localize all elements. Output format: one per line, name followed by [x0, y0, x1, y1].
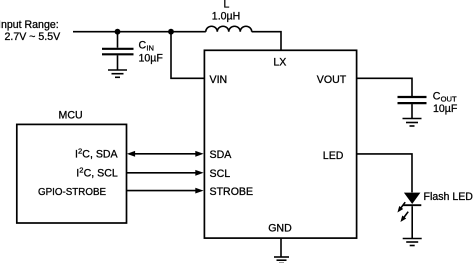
label L: [212, 0, 240, 23]
wire VIN branch: [171, 32, 204, 79]
LED arrow 2: [398, 210, 410, 223]
ground COUT: [403, 119, 422, 127]
svg-text:SCL: SCL: [210, 168, 231, 180]
wire L to LX: [252, 32, 281, 50]
svg-text:10µF: 10µF: [139, 53, 164, 65]
label I2C SCL: [76, 166, 118, 180]
svg-text:Flash LED: Flash LED: [424, 191, 474, 203]
LED arrow 1: [395, 201, 407, 214]
svg-text:IN: IN: [146, 43, 154, 52]
pin LED: [323, 150, 344, 162]
svg-text:C: C: [139, 39, 147, 51]
pin GND: [268, 223, 292, 235]
pin SCL: [210, 168, 231, 180]
label MCU: [59, 110, 83, 122]
svg-text:C: C: [433, 90, 441, 102]
svg-text:SDA: SDA: [210, 149, 233, 161]
svg-text:GPIO-STROBE: GPIO-STROBE: [38, 187, 107, 198]
svg-text:2.7V ~ 5.5V: 2.7V ~ 5.5V: [5, 31, 62, 43]
pin LX: [273, 57, 286, 69]
wire input rail: [73, 31, 206, 33]
svg-text:STROBE: STROBE: [210, 186, 254, 198]
capacitor COUT: [398, 97, 427, 118]
ground LED: [403, 239, 422, 246]
wire LED branch: [357, 154, 412, 193]
label GPIO-STROBE: [38, 187, 107, 198]
svg-text:VIN: VIN: [210, 74, 228, 86]
wire VOUT: [357, 78, 412, 96]
node VIN input label: [0, 19, 61, 43]
ground CIN: [108, 70, 127, 77]
svg-text:C, SCL: C, SCL: [84, 168, 118, 180]
label Flash LED: [424, 191, 474, 203]
LED D1: [403, 193, 421, 239]
wire SDA bus: [129, 153, 200, 155]
node junction CIN: [115, 29, 121, 35]
pin SDA: [210, 149, 233, 161]
label CIN value: [139, 39, 164, 64]
wire SCL bus: [127, 172, 200, 174]
node junction VIN: [168, 29, 174, 35]
svg-text:10µF: 10µF: [433, 103, 458, 115]
inductor L1: [206, 26, 252, 31]
svg-text:VOUT: VOUT: [317, 74, 347, 86]
svg-text:MCU: MCU: [59, 110, 83, 122]
op-amp U1 IC body: [204, 50, 356, 238]
pin STROBE: [210, 186, 254, 198]
label COUT value: [433, 90, 458, 115]
label I2C SDA: [75, 147, 119, 161]
svg-text:GND: GND: [268, 223, 292, 235]
svg-text:1.0µH: 1.0µH: [212, 11, 240, 23]
pin VIN: [210, 74, 228, 86]
svg-text:LED: LED: [323, 150, 344, 162]
capacitor CIN: [102, 32, 134, 70]
wire GND: [280, 238, 282, 257]
svg-text:Input Range:: Input Range:: [0, 19, 59, 31]
svg-text:L: L: [224, 0, 230, 10]
MCU U2 box: [17, 124, 127, 223]
ground GND: [274, 257, 289, 263]
pin VOUT: [317, 74, 347, 86]
svg-text:LX: LX: [273, 57, 286, 69]
wire STROBE bus: [127, 190, 200, 192]
svg-text:C, SDA: C, SDA: [82, 149, 118, 161]
